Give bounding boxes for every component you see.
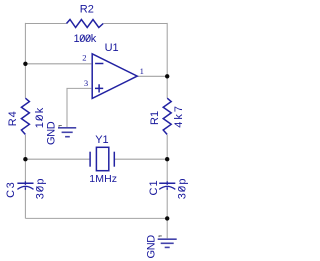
ground pin 1 tick (mid): [59, 126, 62, 127]
label 30p (C1): [177, 177, 189, 199]
svg-text:30p: 30p: [34, 177, 46, 199]
wire crystal right: [114, 158, 167, 160]
wire crystal left: [25, 158, 89, 160]
wire left rail upper: [24, 23, 26, 98]
svg-text:Y1: Y1: [95, 134, 108, 146]
svg-text:1MHz: 1MHz: [89, 173, 117, 185]
wire right rail upper: [166, 23, 168, 98]
svg-text:R4: R4: [7, 110, 19, 126]
wire right rail lower (C1 to bottom): [166, 190, 168, 219]
label 10k: [34, 106, 46, 128]
svg-text:GND: GND: [146, 235, 158, 259]
svg-text:U1: U1: [105, 42, 119, 54]
ground (bottom right): [158, 239, 177, 247]
wire non-inverting input (pin 3 to GND): [67, 88, 91, 127]
junction node op-amp output: [165, 74, 169, 78]
wire top-left (rail to R2): [25, 23, 66, 25]
junction node bottom right: [165, 216, 169, 220]
junction node left crystal row: [23, 157, 27, 161]
svg-text:3: 3: [84, 78, 88, 88]
svg-text:100k: 100k: [74, 33, 97, 45]
ground (op-amp non-inverting input): [58, 128, 76, 137]
junction node right crystal row: [165, 157, 169, 161]
wire bottom GND stub: [166, 218, 168, 238]
svg-text:R2: R2: [80, 4, 94, 16]
wire left rail lower (C3 to bottom): [24, 190, 26, 219]
wire output (pin 1 to right rail): [138, 75, 168, 77]
crystal Y1 right electrode: [113, 152, 115, 167]
wire top-right (R2 to right rail): [103, 23, 167, 25]
op-amp plus sign: [95, 84, 103, 92]
capacitor C3: [17, 181, 33, 190]
wire right rail middle (R1 to C1): [166, 135, 168, 182]
svg-text:2: 2: [82, 52, 86, 62]
crystal Y1 left electrode: [89, 152, 91, 167]
wire left rail middle (R4 to C3): [24, 135, 26, 182]
op-amp minus sign: [95, 63, 103, 65]
resistor R2: [67, 20, 104, 28]
crystal Y1 body: [96, 147, 108, 170]
capacitor C1: [159, 181, 175, 190]
label 30p (C3): [34, 177, 46, 199]
svg-text:4k7: 4k7: [173, 104, 185, 128]
svg-text:30p: 30p: [177, 177, 189, 199]
svg-text:C1: C1: [148, 179, 160, 195]
svg-text:GND: GND: [46, 121, 58, 145]
wire bottom: [25, 217, 167, 219]
resistor R1: [163, 98, 171, 134]
svg-text:R1: R1: [149, 111, 161, 125]
op-amp U1: [92, 54, 137, 99]
junction node left inverting input: [23, 62, 27, 66]
label 100k: [74, 33, 97, 45]
resistor R4: [21, 98, 29, 134]
svg-text:10k: 10k: [34, 106, 46, 128]
svg-text:C3: C3: [5, 181, 17, 198]
ground pin 1 tick (bottom): [159, 236, 162, 237]
wire inverting input (node to pin 2): [25, 63, 91, 65]
svg-text:1: 1: [140, 66, 144, 76]
